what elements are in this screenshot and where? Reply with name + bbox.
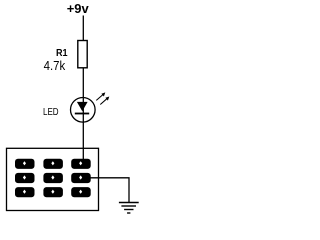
- svg-text:LED: LED: [43, 107, 59, 118]
- resistor R1: [78, 41, 87, 68]
- LED D1: [71, 98, 96, 123]
- keypad button row2 col3: [71, 173, 91, 183]
- LED light arrow 1: [96, 92, 105, 100]
- wire LED to keypad: [82, 122, 84, 160]
- keypad button row1 col1: [15, 159, 35, 169]
- LED light arrow 2: [100, 97, 109, 105]
- svg-text:R1: R1: [56, 48, 68, 59]
- keypad button row1 col2: [43, 159, 63, 169]
- svg-text:+9v: +9v: [67, 1, 90, 16]
- wire +9v to R1: [82, 16, 84, 42]
- wire R1 to LED: [82, 68, 84, 98]
- keypad button row2 col2: [43, 173, 63, 183]
- wire keypad to ground corner: [91, 178, 130, 202]
- wire LED into keypad (inside box): [82, 148, 84, 160]
- keypad box: [7, 148, 99, 210]
- svg-text:4.7k: 4.7k: [44, 59, 66, 73]
- ground: [119, 203, 139, 214]
- keypad button row1 col3: [71, 159, 91, 169]
- keypad button row3 col1: [15, 187, 35, 197]
- keypad button row2 col1: [15, 173, 35, 183]
- keypad button row3 col3: [71, 187, 91, 197]
- keypad button row3 col2: [43, 187, 63, 197]
